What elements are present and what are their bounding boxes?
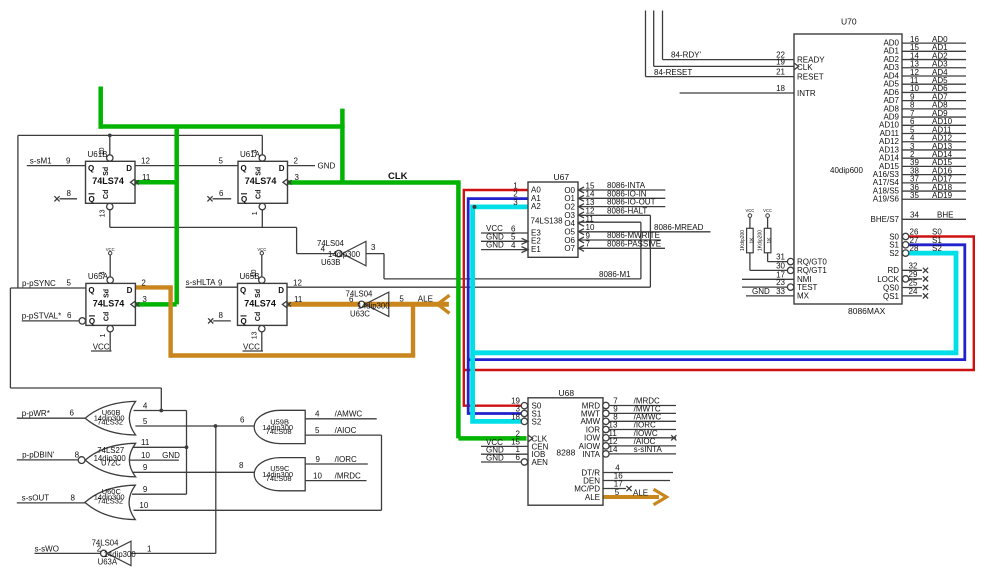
svg-text:4: 4 bbox=[511, 241, 516, 250]
svg-text:BHE/S7: BHE/S7 bbox=[871, 215, 900, 224]
svg-text:ALE: ALE bbox=[418, 295, 433, 304]
svg-text:74LS74: 74LS74 bbox=[245, 176, 277, 186]
svg-text:18: 18 bbox=[511, 412, 520, 421]
svg-text:U63B: U63B bbox=[321, 258, 341, 267]
svg-text:8086-HALT: 8086-HALT bbox=[607, 206, 647, 215]
svg-text:35: 35 bbox=[910, 191, 919, 200]
svg-text:/IORC: /IORC bbox=[335, 455, 357, 464]
svg-text:ALE: ALE bbox=[585, 493, 600, 502]
svg-text:CLK: CLK bbox=[388, 171, 408, 182]
svg-text:RQ/GT0: RQ/GT0 bbox=[797, 257, 827, 266]
svg-text:4: 4 bbox=[321, 244, 326, 253]
svg-text:Q: Q bbox=[89, 195, 95, 204]
svg-text:p-pSYNC: p-pSYNC bbox=[22, 279, 56, 288]
svg-text:23: 23 bbox=[776, 278, 785, 287]
svg-text:74LS08: 74LS08 bbox=[266, 474, 292, 483]
svg-text:p-pDBIN': p-pDBIN' bbox=[22, 451, 55, 460]
svg-text:Cd: Cd bbox=[256, 190, 263, 199]
svg-text:8: 8 bbox=[219, 311, 224, 320]
svg-text:E1: E1 bbox=[531, 245, 541, 254]
svg-text:U63A: U63A bbox=[98, 558, 118, 567]
svg-text:3: 3 bbox=[513, 198, 518, 207]
svg-text:Sd: Sd bbox=[103, 167, 110, 176]
svg-text:10: 10 bbox=[99, 147, 106, 155]
svg-text:GND: GND bbox=[486, 241, 504, 250]
svg-text:34: 34 bbox=[910, 210, 919, 219]
svg-text:30: 30 bbox=[776, 261, 785, 270]
svg-text:74LS74: 74LS74 bbox=[92, 176, 124, 186]
svg-text:8086-MREAD: 8086-MREAD bbox=[654, 223, 704, 232]
svg-text:Cd: Cd bbox=[103, 312, 110, 321]
svg-text:5: 5 bbox=[219, 156, 224, 165]
svg-text:6: 6 bbox=[219, 189, 224, 198]
svg-text:1Kdip200: 1Kdip200 bbox=[740, 230, 746, 251]
svg-text:5: 5 bbox=[143, 417, 148, 426]
svg-text:D: D bbox=[279, 164, 285, 173]
svg-text:11: 11 bbox=[141, 438, 150, 447]
svg-text:7: 7 bbox=[586, 240, 591, 249]
svg-text:8288: 8288 bbox=[556, 448, 575, 458]
svg-text:VCC: VCC bbox=[106, 247, 115, 252]
svg-text:S2: S2 bbox=[889, 249, 899, 258]
svg-text:74LS74: 74LS74 bbox=[244, 298, 276, 308]
svg-text:RESET: RESET bbox=[797, 73, 824, 82]
svg-text:A2: A2 bbox=[531, 202, 541, 211]
svg-text:Sd: Sd bbox=[256, 167, 263, 176]
svg-text:1K: 1K bbox=[750, 237, 756, 244]
svg-text:ALE: ALE bbox=[633, 488, 648, 497]
svg-text:31: 31 bbox=[776, 253, 785, 262]
svg-text:8: 8 bbox=[239, 461, 244, 470]
svg-text:74LS08: 74LS08 bbox=[266, 427, 292, 436]
svg-text:6: 6 bbox=[240, 415, 245, 424]
svg-text:VCC: VCC bbox=[257, 247, 266, 252]
svg-text:10: 10 bbox=[251, 269, 258, 277]
svg-text:GND: GND bbox=[162, 451, 180, 460]
svg-text:Q: Q bbox=[241, 317, 247, 326]
svg-text:40dip600: 40dip600 bbox=[830, 166, 863, 175]
svg-text:U70: U70 bbox=[841, 17, 857, 27]
svg-text:BHE: BHE bbox=[937, 210, 953, 219]
svg-text:9: 9 bbox=[143, 485, 148, 494]
svg-text:CLK: CLK bbox=[797, 63, 813, 72]
svg-text:s-sINTA: s-sINTA bbox=[634, 445, 663, 454]
svg-text:2: 2 bbox=[141, 278, 146, 287]
svg-text:12: 12 bbox=[293, 278, 302, 287]
svg-text:Cd: Cd bbox=[255, 312, 262, 321]
svg-text:S2: S2 bbox=[532, 417, 542, 426]
svg-text:Q: Q bbox=[241, 164, 247, 173]
svg-text:AD19: AD19 bbox=[932, 191, 953, 200]
svg-text:10: 10 bbox=[313, 472, 322, 481]
svg-text:TEST: TEST bbox=[797, 283, 818, 292]
svg-text:11: 11 bbox=[294, 295, 303, 304]
svg-text:13: 13 bbox=[100, 209, 107, 217]
svg-text:4: 4 bbox=[315, 410, 320, 419]
svg-text:33: 33 bbox=[776, 287, 785, 296]
svg-text:VCC: VCC bbox=[763, 208, 772, 213]
svg-text:4: 4 bbox=[252, 149, 259, 153]
svg-text:1: 1 bbox=[252, 211, 259, 215]
svg-text:3: 3 bbox=[142, 295, 147, 304]
svg-text:5: 5 bbox=[615, 488, 620, 497]
svg-text:8086-PASSIVE: 8086-PASSIVE bbox=[607, 239, 661, 248]
svg-text:2: 2 bbox=[294, 156, 299, 165]
svg-text:5: 5 bbox=[66, 278, 71, 287]
svg-text:18: 18 bbox=[776, 84, 785, 93]
svg-text:14: 14 bbox=[609, 445, 618, 454]
svg-text:A19/S6: A19/S6 bbox=[873, 195, 900, 204]
svg-text:Cd: Cd bbox=[103, 190, 110, 199]
svg-text:Q: Q bbox=[241, 195, 247, 204]
svg-text:24: 24 bbox=[909, 287, 918, 296]
svg-text:4: 4 bbox=[99, 271, 106, 275]
svg-text:RQ/GT1: RQ/GT1 bbox=[797, 266, 827, 275]
svg-text:Sd: Sd bbox=[103, 289, 110, 298]
svg-text:U63C: U63C bbox=[350, 310, 370, 319]
svg-text:9: 9 bbox=[218, 278, 223, 287]
svg-text:19: 19 bbox=[776, 57, 785, 66]
svg-text:U72C: U72C bbox=[101, 458, 121, 467]
svg-text:3: 3 bbox=[371, 243, 376, 252]
svg-text:3: 3 bbox=[295, 173, 300, 182]
svg-text:/AIOC: /AIOC bbox=[335, 426, 357, 435]
svg-text:28: 28 bbox=[910, 244, 919, 253]
svg-text:5: 5 bbox=[399, 295, 404, 304]
svg-text:10: 10 bbox=[141, 451, 150, 460]
svg-text:1: 1 bbox=[147, 545, 152, 554]
svg-text:6: 6 bbox=[516, 453, 521, 462]
svg-text:2: 2 bbox=[97, 545, 102, 554]
svg-text:INTA: INTA bbox=[582, 450, 600, 459]
svg-text:1Kdip200: 1Kdip200 bbox=[758, 230, 764, 251]
svg-text:11: 11 bbox=[142, 173, 151, 182]
svg-text:74LS74: 74LS74 bbox=[93, 298, 125, 308]
svg-text:s-sOUT: s-sOUT bbox=[22, 494, 50, 503]
svg-text:p-pWR*: p-pWR* bbox=[22, 409, 50, 418]
svg-text:8086-M1: 8086-M1 bbox=[599, 270, 631, 279]
svg-text:Q: Q bbox=[88, 286, 94, 295]
svg-text:U68: U68 bbox=[559, 388, 575, 398]
svg-text:21: 21 bbox=[776, 68, 785, 77]
svg-text:6: 6 bbox=[70, 409, 75, 418]
svg-text:VCC: VCC bbox=[745, 208, 754, 213]
svg-text:s-sWO: s-sWO bbox=[35, 544, 59, 553]
svg-text:74LS32: 74LS32 bbox=[97, 418, 123, 427]
svg-text:6: 6 bbox=[349, 295, 354, 304]
svg-text:MX: MX bbox=[797, 292, 810, 301]
svg-text:/MRDC: /MRDC bbox=[335, 472, 361, 481]
svg-text:s-sHLTA: s-sHLTA bbox=[186, 278, 217, 287]
svg-text:9: 9 bbox=[143, 463, 148, 472]
svg-text:Q: Q bbox=[88, 164, 94, 173]
svg-text:5: 5 bbox=[315, 426, 320, 435]
svg-text:S2: S2 bbox=[932, 244, 942, 253]
svg-text:74LS138: 74LS138 bbox=[531, 216, 564, 225]
svg-text:84-RDY': 84-RDY' bbox=[671, 50, 701, 59]
svg-text:D: D bbox=[127, 286, 133, 295]
svg-text:Sd: Sd bbox=[255, 289, 262, 298]
svg-text:13: 13 bbox=[252, 331, 259, 339]
svg-text:12: 12 bbox=[141, 156, 150, 165]
svg-text:10: 10 bbox=[139, 501, 148, 510]
svg-text:INTR: INTR bbox=[797, 89, 816, 98]
svg-text:4: 4 bbox=[143, 401, 148, 410]
svg-text:VCC: VCC bbox=[93, 342, 110, 351]
svg-text:AEN: AEN bbox=[532, 458, 549, 467]
svg-text:GND: GND bbox=[752, 287, 770, 296]
svg-text:Q: Q bbox=[89, 317, 95, 326]
svg-text:84-RESET: 84-RESET bbox=[654, 68, 692, 77]
svg-text:8: 8 bbox=[71, 494, 76, 503]
svg-text:9: 9 bbox=[66, 156, 71, 165]
svg-text:p-pSTVAL*: p-pSTVAL* bbox=[22, 312, 61, 321]
svg-text:D: D bbox=[126, 164, 132, 173]
svg-text:D: D bbox=[278, 286, 284, 295]
svg-text:9: 9 bbox=[316, 455, 321, 464]
svg-text:1K: 1K bbox=[767, 237, 773, 244]
svg-text:/AMWC: /AMWC bbox=[335, 410, 363, 419]
svg-text:Q: Q bbox=[240, 286, 246, 295]
svg-text:GND: GND bbox=[318, 162, 336, 171]
svg-text:8086-IO-OUT: 8086-IO-OUT bbox=[607, 198, 656, 207]
svg-text:GND: GND bbox=[486, 454, 504, 463]
svg-text:8086MAX: 8086MAX bbox=[848, 306, 886, 316]
svg-text:8: 8 bbox=[75, 450, 80, 459]
svg-text:8: 8 bbox=[67, 189, 72, 198]
svg-text:1: 1 bbox=[100, 333, 107, 337]
svg-text:VCC: VCC bbox=[243, 342, 260, 351]
svg-text:U67: U67 bbox=[554, 172, 570, 182]
svg-text:s-sM1: s-sM1 bbox=[30, 157, 52, 166]
svg-text:74LS32: 74LS32 bbox=[97, 497, 123, 506]
svg-text:6: 6 bbox=[67, 311, 72, 320]
svg-text:O7: O7 bbox=[564, 244, 575, 253]
svg-text:QS1: QS1 bbox=[883, 292, 900, 301]
